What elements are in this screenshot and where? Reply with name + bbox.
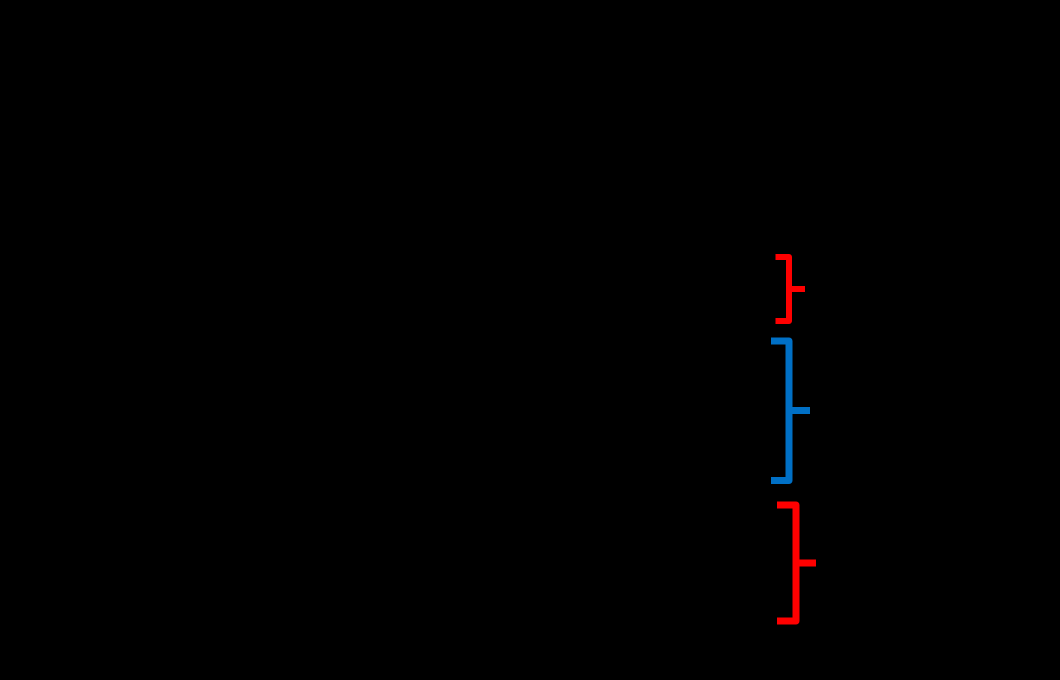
brace blue middle: [771, 341, 810, 481]
brace red top: [776, 257, 806, 321]
brace red bottom: [777, 505, 816, 621]
